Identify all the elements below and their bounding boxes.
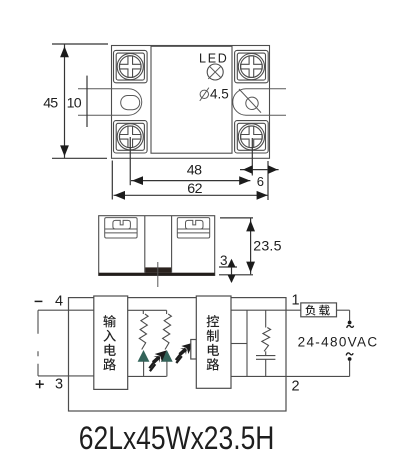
wire: input box to resistors (top) xyxy=(128,309,167,311)
AC tilde lower xyxy=(346,353,353,355)
svg-text:6: 6 xyxy=(257,174,264,189)
right mounting slot cutout xyxy=(233,89,286,116)
svg-text:62: 62 xyxy=(187,181,202,197)
screw terminal top-left xyxy=(114,50,148,82)
control circuit box xyxy=(196,296,231,388)
screw terminal top-right xyxy=(235,50,269,82)
snubber capacitor C1 xyxy=(265,351,267,355)
side view base plate (black bar) xyxy=(99,273,215,276)
LED D1 (emitter) xyxy=(138,350,150,362)
wire: LED cathodes to input box (bottom) xyxy=(128,375,167,377)
svg-text:4: 4 xyxy=(55,294,63,310)
svg-text:10: 10 xyxy=(67,96,82,112)
dimension 23.5: extension line top xyxy=(220,217,253,219)
label minus xyxy=(35,300,43,302)
dimension 23.5/3: shared bottom extension line xyxy=(219,274,253,276)
resistor R1 xyxy=(142,310,144,314)
extension line body left xyxy=(111,161,113,200)
input circuit box xyxy=(94,296,128,389)
svg-text:48: 48 xyxy=(187,162,202,178)
side view center line xyxy=(157,262,159,287)
svg-text:23.5: 23.5 xyxy=(253,238,281,254)
dimension 62: line with arrows xyxy=(114,194,268,196)
dimension 23.5: line with arrows xyxy=(250,219,252,275)
SSR body outline (top view) xyxy=(112,46,270,159)
label plus xyxy=(36,383,44,385)
left oval mounting slot xyxy=(121,96,140,110)
input circuit char 电 xyxy=(104,344,115,356)
extension line screw center right xyxy=(251,138,253,176)
svg-text:45: 45 xyxy=(43,96,58,112)
light arrow 1 xyxy=(155,350,167,361)
control circuit char 电 xyxy=(208,344,219,356)
wire: bottom rail to terminal 2 xyxy=(231,375,350,377)
wire: load to AC source xyxy=(337,309,350,311)
dimension 48: line with arrows xyxy=(131,180,250,182)
svg-text:3: 3 xyxy=(55,377,63,393)
input circuit char 入 xyxy=(103,330,115,342)
snubber resistor R3 xyxy=(265,310,267,327)
left mounting slot cutout xyxy=(78,89,142,116)
side view center block (dark) xyxy=(145,267,171,272)
side view left terminal xyxy=(105,218,137,238)
raised center cover xyxy=(151,46,232,153)
AC source terminal dot lower xyxy=(348,357,352,361)
input circuit char 路 xyxy=(103,358,116,370)
photo receiver window xyxy=(191,340,197,360)
svg-text:1: 1 xyxy=(292,293,300,309)
wire: control box to terminal 1 xyxy=(231,309,301,311)
DC source dashed line xyxy=(37,310,39,376)
svg-text:4.5: 4.5 xyxy=(210,87,229,102)
load char 负 xyxy=(305,305,315,316)
dimension 45: extension line bottom xyxy=(52,157,107,159)
dimension 3: upper line xyxy=(219,266,237,268)
resistor R2 xyxy=(166,310,168,314)
svg-text:62Lx45Wx23.5H: 62Lx45Wx23.5H xyxy=(79,420,275,456)
control circuit char 控 xyxy=(207,315,219,327)
terminal 4 wire (minus input) xyxy=(38,309,94,311)
svg-text:LED: LED xyxy=(199,51,227,65)
right mounting hole (circle) xyxy=(246,97,258,109)
side view center column xyxy=(144,216,146,273)
diameter 4.5 label xyxy=(200,90,208,98)
leader line from 4.5 label to hole xyxy=(239,89,261,113)
gate stub wire xyxy=(231,343,247,345)
load char 载 xyxy=(319,305,330,316)
side view right terminal xyxy=(177,218,209,238)
screw terminal bottom-left xyxy=(114,121,148,153)
dimension 45: extension line top xyxy=(52,43,108,45)
svg-text:2: 2 xyxy=(292,378,300,394)
terminal 3 wire (plus input) xyxy=(38,375,94,377)
AC tilde upper xyxy=(347,325,354,327)
svg-text:24-480VAC: 24-480VAC xyxy=(298,335,378,350)
dimension 6: line with outward arrows xyxy=(240,169,279,171)
LED indicator symbol (circle with X) xyxy=(207,64,223,80)
svg-text:3: 3 xyxy=(220,253,228,268)
schematic outer box (SSR body) xyxy=(69,298,287,411)
input circuit char 输 xyxy=(103,315,116,327)
AC source terminal dot upper xyxy=(348,321,352,325)
LED D2 (emitter) xyxy=(161,350,173,362)
extension line body right xyxy=(267,161,269,200)
dimension 10: dimension line xyxy=(86,76,88,127)
control circuit char 路 xyxy=(207,358,220,370)
screw terminal bottom-right xyxy=(235,121,269,153)
dimension 45: dimension line with arrows xyxy=(64,44,66,158)
extension line screw center left xyxy=(129,137,131,185)
control circuit char 制 xyxy=(207,330,219,342)
light arrow 2 xyxy=(181,343,193,354)
output switch branch wire xyxy=(246,310,248,376)
side view body outline xyxy=(99,216,215,276)
dimension 3: outward arrows xyxy=(231,260,233,282)
load box xyxy=(301,303,337,317)
